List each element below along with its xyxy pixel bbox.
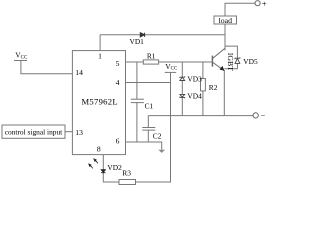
wire C2 to pin6 rail xyxy=(147,130,149,142)
svg-text:6: 6 xyxy=(116,136,120,145)
svg-text:+: + xyxy=(262,0,267,8)
svg-text:R2: R2 xyxy=(209,83,218,92)
svg-text:M57962L: M57962L xyxy=(82,96,118,106)
diode VD2 (opto LED) xyxy=(101,170,105,173)
wire load to + terminal xyxy=(225,3,255,16)
wire C1 drop xyxy=(136,62,138,99)
wire VD4 to emitter rail xyxy=(181,97,183,115)
svg-text:R3: R3 xyxy=(122,168,131,177)
wire load to collector xyxy=(224,24,226,50)
capacitor C2 xyxy=(142,127,155,129)
svg-text:C2: C2 xyxy=(153,131,162,140)
transistor emitter arrowhead xyxy=(220,66,225,71)
svg-text:1: 1 xyxy=(98,52,102,61)
terminal - circle xyxy=(253,113,258,118)
wire C2 riser xyxy=(147,116,149,128)
ground symbol arrowhead xyxy=(158,150,165,153)
wire pin 6 rail to ground xyxy=(126,142,162,150)
wire VD3 to VD4 xyxy=(181,80,183,94)
svg-text:8: 8 xyxy=(97,145,101,154)
wire R1 to base xyxy=(159,61,212,63)
wire pin 1 riser xyxy=(99,35,101,51)
svg-text:4: 4 xyxy=(116,78,120,87)
svg-text:13: 13 xyxy=(75,128,83,137)
wire pin 8 drop xyxy=(102,155,104,170)
wire pin 5 to R1 xyxy=(126,61,144,63)
control signal input box xyxy=(2,125,65,138)
wire pin 1 to VD1 xyxy=(100,34,140,36)
svg-text:load: load xyxy=(219,16,233,25)
svg-text:VD4: VD4 xyxy=(187,92,202,101)
wire Vcc-left to pin 14 xyxy=(21,61,73,74)
wire Vcc vertical down to R3 xyxy=(136,72,171,182)
diode VD5 xyxy=(235,57,240,63)
svg-text:C1: C1 xyxy=(145,101,154,110)
wire control box to pin 13 xyxy=(65,131,72,133)
LED emission arrow a2 xyxy=(89,164,93,168)
resistor R1 xyxy=(143,60,158,64)
svg-text:R1: R1 xyxy=(147,52,156,61)
svg-text:−: − xyxy=(261,111,266,120)
wire VD5 to emitter xyxy=(224,64,237,69)
terminal + circle xyxy=(255,1,260,6)
svg-text:VD5: VD5 xyxy=(243,57,258,66)
wire VD1 to collector node xyxy=(145,34,225,36)
svg-text:14: 14 xyxy=(75,68,83,77)
wire emitter rail to - terminal xyxy=(148,115,253,117)
resistor R3 xyxy=(119,180,136,185)
IC U1 M57962L body xyxy=(72,51,125,155)
svg-text:VD3: VD3 xyxy=(187,75,202,84)
svg-text:IGBT: IGBT xyxy=(226,53,235,71)
load box xyxy=(214,16,237,24)
wire VD3 drop xyxy=(181,62,183,77)
svg-text:5: 5 xyxy=(116,59,120,68)
resistor R2 xyxy=(201,79,206,91)
svg-text:VD1: VD1 xyxy=(130,37,145,46)
power Vcc (right) supply bar xyxy=(165,71,177,73)
svg-text:control signal input: control signal input xyxy=(5,128,63,137)
capacitor C1 xyxy=(131,98,144,100)
wire R2 to emitter rail xyxy=(202,91,204,116)
wire pin 4 to Vcc net xyxy=(126,82,171,84)
wire emitter drop xyxy=(223,70,225,115)
LED emission arrow a1 xyxy=(94,159,98,163)
svg-text:VD2: VD2 xyxy=(107,163,122,172)
wire VD5 branch xyxy=(225,46,237,58)
diode VD4 xyxy=(180,94,185,98)
transistor Q1 IGBT xyxy=(211,56,213,67)
diode VD1 xyxy=(140,33,144,37)
diode VD3 xyxy=(180,76,185,80)
wire C1 to pin6 rail xyxy=(136,103,138,142)
power Vcc (left) supply bar xyxy=(14,60,27,62)
wire VD2 to R3 xyxy=(103,173,119,182)
wire R2 drop xyxy=(202,62,204,79)
